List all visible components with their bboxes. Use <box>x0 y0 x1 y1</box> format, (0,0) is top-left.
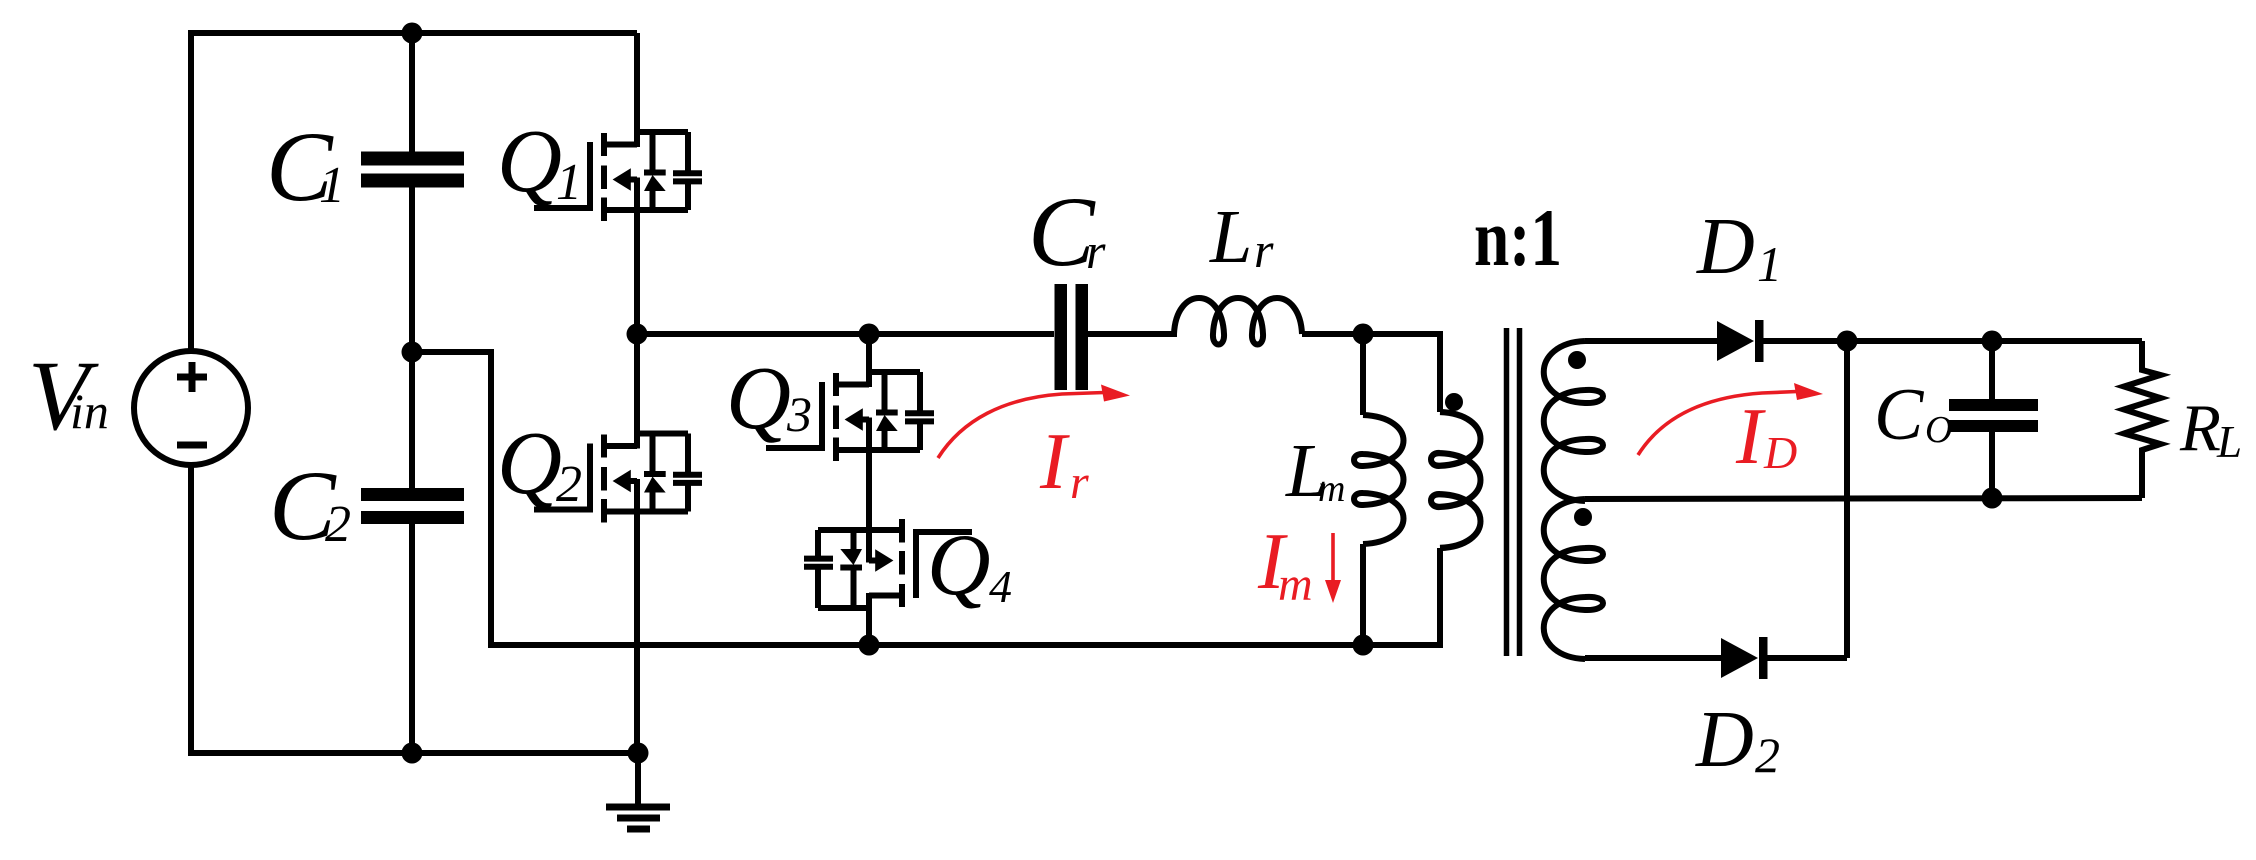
Vin plus sign <box>177 362 207 445</box>
capacitor Cr <box>1055 284 1178 390</box>
wire: Lr to node <box>1302 331 1363 337</box>
svg-text:Q: Q <box>497 414 562 513</box>
wire: center tap to output- <box>1585 498 2142 499</box>
svg-text:4: 4 <box>989 561 1012 612</box>
svg-text:2: 2 <box>1755 727 1780 783</box>
red arrow Ir <box>938 393 1104 459</box>
red arrow Im <box>1331 533 1335 582</box>
red arrow ID <box>1638 392 1797 456</box>
capacitor Co <box>1949 341 2038 498</box>
svg-text:Q: Q <box>726 349 791 448</box>
svg-text:r: r <box>1086 223 1106 279</box>
resistor RL <box>2124 341 2161 498</box>
svg-text:D: D <box>1763 427 1797 478</box>
svg-text:Q: Q <box>927 517 991 614</box>
svg-text:R: R <box>2179 391 2221 465</box>
transformer secondary bottom winding <box>1544 499 1603 659</box>
svg-text:2: 2 <box>325 496 351 553</box>
voltage source Vin <box>134 351 248 465</box>
transformer secondary top winding <box>1544 341 1603 501</box>
wire: top rail <box>191 33 637 351</box>
svg-text:1: 1 <box>319 157 345 214</box>
transistor Q2 <box>534 434 702 523</box>
svg-text:r: r <box>1070 456 1089 509</box>
svg-text:C: C <box>1874 374 1925 456</box>
wire: tank top rail <box>637 331 1054 337</box>
secondary top phase dot <box>1568 351 1586 369</box>
svg-text:in: in <box>70 383 109 439</box>
Vin minus sign <box>177 442 207 449</box>
node: half-bridge midpoint <box>627 324 648 345</box>
svg-text:O: O <box>1925 409 1952 451</box>
secondary bottom phase dot <box>1574 508 1592 526</box>
svg-text:n:1: n:1 <box>1474 192 1562 283</box>
wire: secondary bottom to D2 <box>1585 655 1721 661</box>
svg-text:r: r <box>1254 222 1274 278</box>
svg-text:L: L <box>1209 195 1252 279</box>
primary phase dot <box>1445 393 1463 411</box>
wire: Q4 to bottom rail <box>866 608 872 645</box>
svg-text:m: m <box>1278 558 1313 611</box>
node: tank bottom at Lm <box>1353 635 1374 656</box>
wire: midpoint step to tank bottom <box>412 352 869 645</box>
wire: tank bottom rail segment <box>869 642 1363 648</box>
node: output+ at Co <box>1982 331 2003 352</box>
node: tank top at Q3 <box>859 324 880 345</box>
node: C1-C2 midpoint <box>402 342 423 363</box>
transistor Q1 <box>534 132 702 221</box>
wire: Q2 source to bottom rail <box>634 512 640 754</box>
wire: drain Q1 <box>634 33 640 132</box>
wire: secondary top to D1 <box>1585 338 1717 344</box>
svg-text:1: 1 <box>1757 236 1782 292</box>
diode D1 <box>1717 320 2142 362</box>
svg-text:D: D <box>1695 696 1754 784</box>
transformer core <box>1507 328 1520 656</box>
ground <box>606 753 670 829</box>
svg-text:D: D <box>1696 203 1755 291</box>
svg-text:3: 3 <box>786 386 812 442</box>
wire: D1 node down to D2 <box>1844 341 1850 658</box>
inductor Lr <box>1174 298 1302 345</box>
svg-text:I: I <box>1735 393 1766 481</box>
wire: mid node to Q2 drain <box>634 334 640 434</box>
svg-text:Q: Q <box>497 112 562 211</box>
wire: Q3 source to Q4 <box>866 450 872 531</box>
svg-text:m: m <box>1318 468 1345 510</box>
svg-text:L: L <box>2216 417 2242 467</box>
node: output+ at D1 <box>1837 331 1858 352</box>
transistor Q4 (rotated 180) <box>804 519 972 608</box>
svg-text:1: 1 <box>556 154 582 211</box>
node: output- at Co <box>1982 488 2003 509</box>
node: bottom rail at C2 <box>402 743 423 764</box>
wire: Q3 drain <box>866 334 872 372</box>
node: top rail at C1 <box>402 23 423 44</box>
transformer primary <box>1363 334 1440 645</box>
svg-text:2: 2 <box>556 456 582 513</box>
node: tank bottom at Q4 <box>859 635 880 656</box>
inductor Lm <box>1360 334 1366 645</box>
capacitor C1 <box>361 33 464 352</box>
capacitor C2 <box>361 352 464 753</box>
node: bottom rail at Q2 <box>628 743 649 764</box>
diode D2 <box>1721 637 1847 679</box>
wire: left bottom <box>191 465 638 753</box>
transistor Q3 <box>766 372 934 461</box>
wire: source Q1 to mid node <box>634 210 640 334</box>
svg-text:I: I <box>1039 418 1070 506</box>
node: tank top at Lm <box>1353 324 1374 345</box>
